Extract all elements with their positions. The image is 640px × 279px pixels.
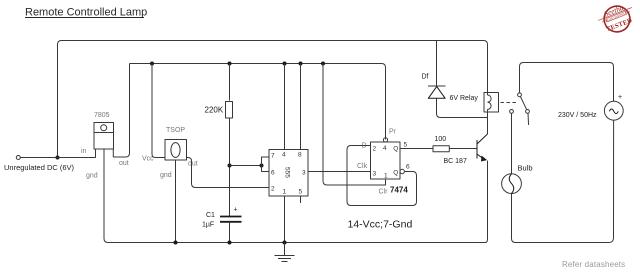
- svg-text:7474: 7474: [390, 186, 408, 195]
- svg-text:4: 4: [282, 152, 286, 159]
- switch blade: [520, 97, 526, 110]
- wire: regulated Vcc rail: [130, 64, 386, 140]
- node: Vcc rail dot TSOP: [150, 62, 154, 66]
- svg-text:Clk: Clk: [357, 163, 368, 170]
- wire: TSOP Vcc drop: [152, 64, 165, 158]
- wire: 555 pin 5 stub: [300, 196, 302, 203]
- svg-text:BC 187: BC 187: [444, 158, 467, 165]
- svg-text:in: in: [81, 148, 87, 155]
- ground: [275, 243, 295, 262]
- capacitor C1: [220, 217, 242, 222]
- svg-text:6V Relay: 6V Relay: [450, 95, 479, 102]
- wire: unregulated 6V rail (left edge, top, right edge down to relay): [58, 41, 488, 158]
- wire: TSOP gnd: [175, 160, 177, 243]
- wire: 7805 gnd to ground rail: [103, 149, 105, 239]
- svg-text:Q: Q: [393, 146, 398, 153]
- diode Df: [436, 41, 438, 87]
- svg-text:Pr: Pr: [389, 129, 397, 136]
- Pr bubble: [383, 138, 387, 142]
- switch pivot: [526, 110, 530, 114]
- wire: TSOP out to 555 pin 2: [187, 158, 270, 188]
- switch pivot stub: [527, 113, 530, 125]
- svg-text:Q: Q: [393, 169, 398, 176]
- bulb: [502, 174, 522, 194]
- node: Vcc rail dot pin4: [283, 62, 287, 66]
- svg-text:+: +: [618, 94, 622, 101]
- timer 555: [269, 150, 308, 197]
- svg-text:Bulb: Bulb: [518, 164, 533, 173]
- dashed mechanical link: [501, 102, 518, 104]
- terminal: unregulated DC input: [16, 156, 20, 160]
- svg-text:5: 5: [299, 189, 303, 196]
- svg-text:2: 2: [373, 146, 377, 153]
- svg-text:1µF: 1µF: [202, 222, 214, 229]
- transistor BC187: [477, 134, 488, 161]
- svg-text:100: 100: [435, 136, 447, 143]
- svg-text:out: out: [188, 161, 198, 168]
- relay coil 6V Relay: [484, 93, 499, 113]
- svg-text:Remote Controlled Lamp: Remote Controlled Lamp: [25, 7, 147, 19]
- stamp: [595, 0, 638, 37]
- svg-text:6: 6: [406, 164, 410, 171]
- svg-text:220K: 220K: [205, 106, 224, 115]
- flip-flop 7474: [371, 142, 401, 179]
- label: Unregulated DC (6V): [4, 163, 75, 172]
- wire: ground rail: [104, 239, 486, 243]
- node: 220K / pins junction: [228, 164, 232, 168]
- wire: junction to 555 bracket: [230, 165, 262, 167]
- svg-text:2: 2: [271, 186, 275, 193]
- wire: lamp loop top and sides: [520, 63, 614, 102]
- label: Refer datasheets: [562, 260, 625, 269]
- node: C1 ground: [228, 241, 232, 245]
- wire: C1 to ground rail: [229, 222, 231, 243]
- wire: Vcc to 220K: [229, 64, 231, 101]
- svg-text:7: 7: [271, 153, 275, 160]
- svg-text:1: 1: [384, 173, 388, 180]
- resistor 100: [433, 146, 449, 152]
- node: TSOP gnd on ground rail: [174, 241, 178, 245]
- title underline: [25, 17, 144, 19]
- svg-text:3: 3: [302, 170, 306, 177]
- svg-text:Df: Df: [422, 74, 429, 81]
- title: [25, 7, 147, 19]
- svg-text:1: 1: [283, 189, 287, 196]
- svg-text:gnd: gnd: [160, 172, 172, 179]
- AC source 230V/50Hz: [604, 101, 623, 120]
- svg-text:7805: 7805: [94, 112, 110, 119]
- wire: 555 pin 8 to Vcc: [300, 64, 302, 150]
- node: input junction: [56, 156, 60, 160]
- node: Vcc rail dot pin8: [299, 62, 303, 66]
- label: 14-Vcc;7-Gnd: [348, 219, 413, 231]
- svg-text:TSOP: TSOP: [166, 127, 185, 134]
- wire: Qbar to D feedback loop: [347, 146, 417, 206]
- node: Vcc rail dot Clr: [321, 62, 325, 66]
- wire: 555 pin 1 to ground: [284, 196, 286, 243]
- svg-text:230V / 50Hz: 230V / 50Hz: [558, 112, 597, 119]
- wire: Clr to Vcc: [323, 64, 386, 186]
- wire: AC source to lamp loop bottom: [512, 120, 614, 242]
- wire: Q output to 100R: [400, 148, 433, 150]
- svg-text:out: out: [119, 160, 129, 167]
- wire: switch to bulb: [511, 113, 513, 173]
- svg-text:6: 6: [271, 170, 275, 177]
- svg-text:+: +: [234, 207, 238, 214]
- wire: 555 pins 7-6 bracket: [262, 157, 270, 172]
- svg-text:4: 4: [383, 145, 387, 152]
- wire: emitter to ground rail: [486, 161, 488, 243]
- wire: 220K bottom down to C1: [229, 118, 231, 216]
- wire: 555 pin 4 to Vcc: [284, 64, 286, 150]
- wire: 555 pin 3 to 7474 Clk: [308, 171, 371, 173]
- node: bracket junction: [260, 164, 264, 168]
- svg-text:5: 5: [404, 142, 408, 149]
- svg-text:gnd: gnd: [86, 173, 98, 180]
- wire: 7805 out riser to Vcc rail: [113, 64, 129, 158]
- regulator 7805: [94, 123, 114, 150]
- svg-text:3: 3: [373, 171, 377, 178]
- wire: collector to relay: [487, 112, 489, 134]
- switch contact lower (to bulb): [510, 110, 514, 114]
- svg-text:Unregulated DC (6V): Unregulated DC (6V): [4, 163, 75, 172]
- svg-text:555: 555: [283, 167, 290, 178]
- svg-text:C1: C1: [206, 212, 215, 219]
- switch contact upper: [518, 93, 522, 97]
- node: Vcc rail dot 220K: [228, 62, 232, 66]
- IR receiver TSOP: [165, 140, 187, 161]
- resistor 220K: [226, 102, 233, 119]
- svg-text:8: 8: [298, 152, 302, 159]
- Qbar bubble: [400, 169, 404, 173]
- svg-text:14-Vcc;7-Gnd: 14-Vcc;7-Gnd: [348, 219, 413, 231]
- node: pin1 ground: [283, 241, 287, 245]
- svg-text:Refer datasheets: Refer datasheets: [562, 260, 625, 269]
- wire: input to 7805 in: [21, 149, 96, 158]
- svg-text:Clr: Clr: [379, 189, 389, 196]
- wire: 100R to base: [449, 148, 477, 150]
